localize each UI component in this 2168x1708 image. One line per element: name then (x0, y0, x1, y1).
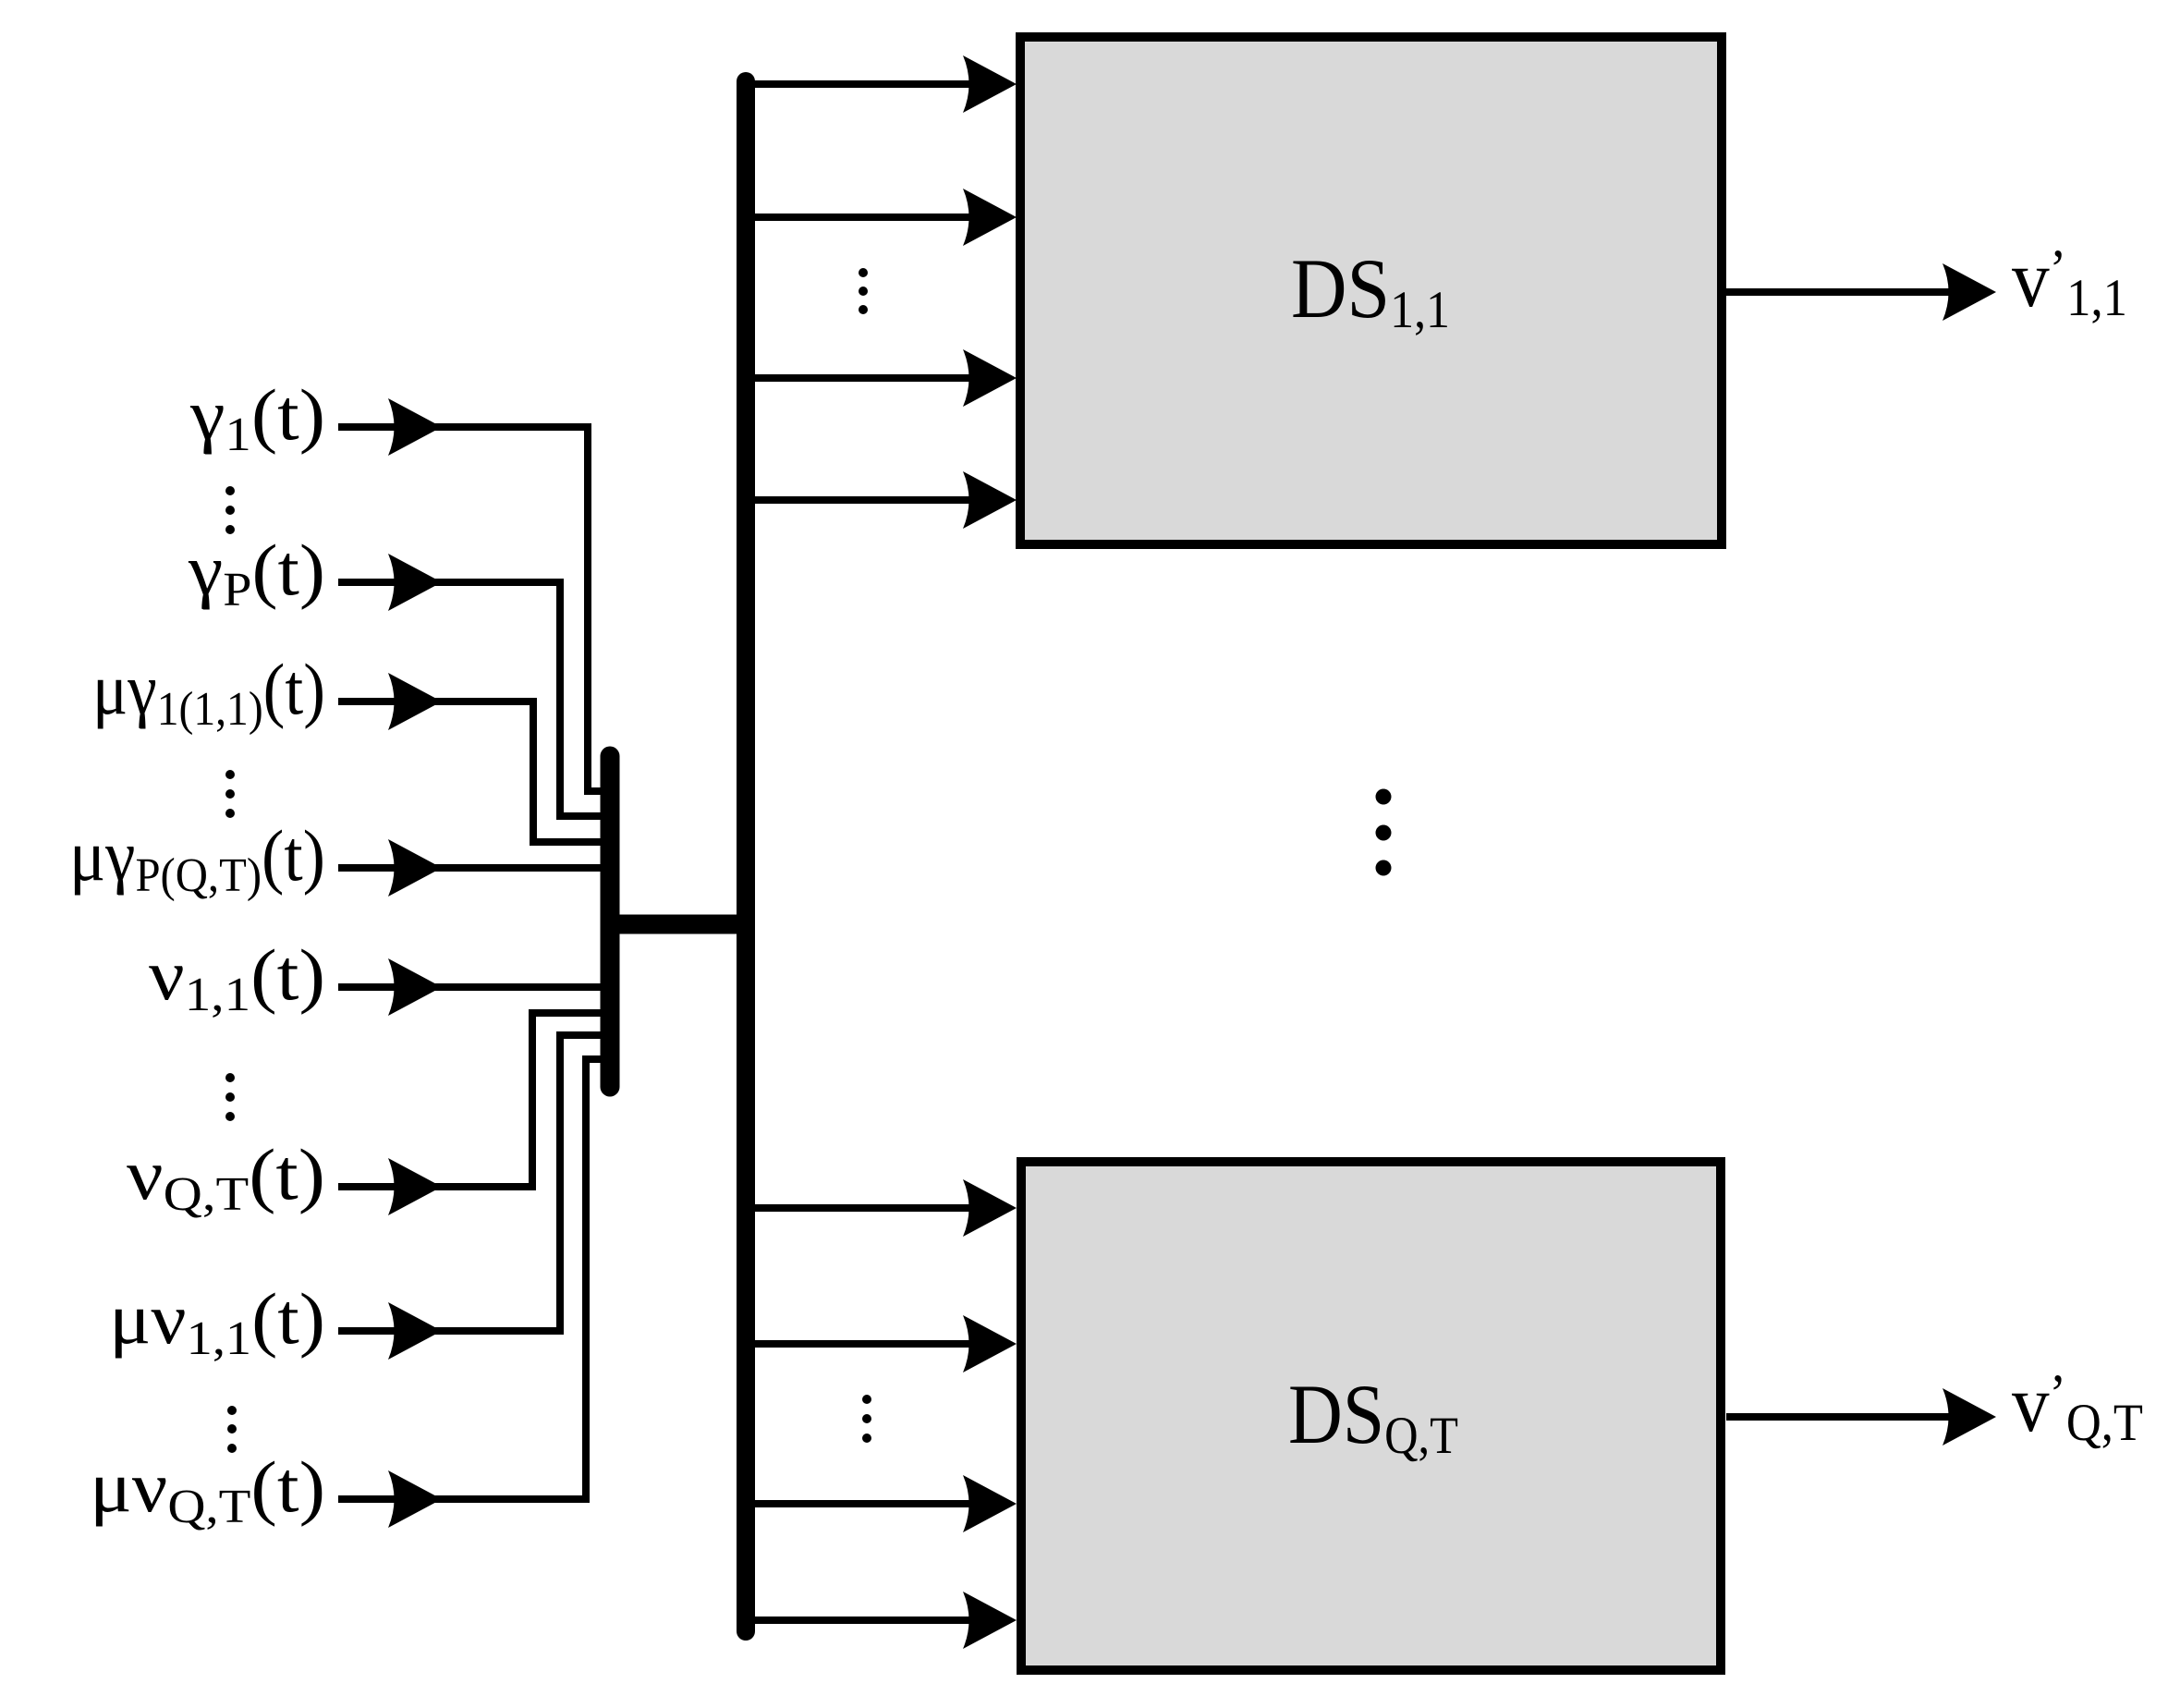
wire input ν1,1(t) (338, 983, 610, 991)
input label input μνQ,T(t) (90, 1446, 325, 1533)
wire bus to DSQ,T input 3 (746, 1500, 980, 1507)
wire bus to DS1,1 input 4 (746, 496, 980, 504)
input label input ν1,1(t) (149, 934, 325, 1021)
ellipsis between μν1,1(t) and μνQ,T(t) (227, 1406, 237, 1453)
output label v&#8242;Q,T (2012, 1360, 2143, 1452)
ellipsis on DSQ,T inputs (862, 1395, 871, 1443)
wire input μγ1(1,1)(t) (338, 701, 610, 842)
ellipsis between γ1(t) and γP(t) (225, 486, 235, 534)
arrowhead DS1,1 input 1 (963, 55, 1017, 113)
input label input νQ,T(t) (127, 1134, 325, 1221)
bus: input collector bar (601, 756, 620, 1087)
block DSQ,T (1021, 1162, 1721, 1670)
wire bus to DS1,1 input 2 (746, 213, 980, 221)
wire input γP(t) (338, 582, 610, 816)
wire input γ1(t) (338, 427, 610, 791)
ellipsis between DS1,1 and DSQ,T (1376, 789, 1392, 876)
input label input μν1,1(t) (109, 1278, 325, 1365)
label DS1,1 (1291, 241, 1450, 339)
arrowhead DSQ,T output (1943, 1388, 1996, 1446)
arrowhead DS1,1 input 4 (963, 471, 1017, 529)
wire DSQ,T output (1726, 1413, 1950, 1421)
arrowhead input μγ1(1,1)(t) (388, 673, 442, 730)
arrowhead input γP(t) (388, 554, 442, 611)
arrowhead DSQ,T input 1 (963, 1179, 1017, 1237)
wire bus to DSQ,T input 1 (746, 1204, 980, 1212)
ellipsis between ν1,1(t) and νQ,T(t) (225, 1073, 235, 1121)
svg-text:γP(t): γP(t) (188, 530, 325, 616)
arrowhead input γ1(t) (388, 398, 442, 456)
wire input μν1,1(t) (338, 1035, 610, 1331)
arrowhead DSQ,T input 3 (963, 1475, 1017, 1532)
input label input μγ1(1,1)(t) (92, 649, 325, 736)
arrowhead DS1,1 input 2 (963, 189, 1017, 246)
ellipsis between μγ1(1,1)(t) and μγP(Q,T)(t) (225, 770, 235, 818)
arrowhead DS1,1 input 3 (963, 349, 1017, 407)
block DS1,1 (1020, 37, 1722, 544)
arrowhead input μνQ,T(t) (388, 1470, 442, 1528)
wire input μγP(Q,T)(t) (338, 864, 610, 872)
arrowhead input ν1,1(t) (388, 958, 442, 1016)
arrowhead DS1,1 output (1943, 263, 1996, 321)
arrowhead input μν1,1(t) (388, 1302, 442, 1360)
svg-text:γ1(t): γ1(t) (189, 374, 325, 461)
wire input νQ,T(t) (338, 1013, 610, 1187)
wire DS1,1 output (1726, 288, 1950, 296)
wire bus to DSQ,T input 2 (746, 1340, 980, 1348)
wire bus to DS1,1 input 1 (746, 80, 980, 88)
input label input γP(t) (188, 530, 325, 616)
label DSQ,T (1288, 1367, 1458, 1465)
arrowhead input νQ,T(t) (388, 1158, 442, 1215)
input label input γ1(t) (189, 374, 325, 461)
input label input μγP(Q,T)(t) (69, 815, 325, 902)
bus: main vertical distribution bus (737, 81, 755, 1631)
arrowhead DSQ,T input 4 (963, 1592, 1017, 1649)
wire input μνQ,T(t) (338, 1059, 610, 1499)
output label v&#8242;1,1 (2012, 235, 2127, 327)
ellipsis on DS1,1 inputs (859, 268, 868, 314)
wire bus to DS1,1 input 3 (746, 374, 980, 382)
wire: collector bar to main bus connector (610, 915, 746, 934)
wire bus to DSQ,T input 4 (746, 1616, 980, 1624)
arrowhead input μγP(Q,T)(t) (388, 839, 442, 897)
arrowhead DSQ,T input 2 (963, 1315, 1017, 1372)
